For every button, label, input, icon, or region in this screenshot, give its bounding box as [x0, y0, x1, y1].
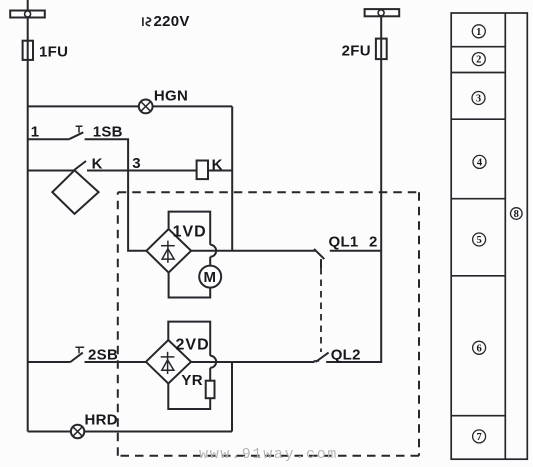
svg-text:HGN: HGN [154, 88, 188, 105]
svg-text:1: 1 [31, 124, 40, 141]
svg-text:QL1: QL1 [329, 233, 359, 250]
svg-text:2: 2 [369, 233, 378, 250]
svg-text:3: 3 [132, 155, 141, 172]
svg-text:QL2: QL2 [331, 347, 361, 364]
svg-text:K: K [212, 157, 223, 174]
svg-text:2FU: 2FU [342, 42, 371, 59]
svg-text:220V: 220V [154, 13, 190, 30]
svg-text:HRD: HRD [85, 412, 118, 429]
svg-text:2SB: 2SB [88, 347, 118, 364]
svg-text:1: 1 [476, 27, 481, 38]
svg-text:8: 8 [514, 209, 519, 220]
svg-text:5: 5 [476, 235, 481, 246]
svg-text:1SB: 1SB [93, 124, 123, 141]
svg-text:2VD: 2VD [176, 337, 210, 354]
svg-text:1FU: 1FU [39, 43, 68, 60]
svg-text:M: M [204, 269, 217, 286]
svg-text:6: 6 [476, 343, 481, 354]
svg-text:1VD: 1VD [173, 223, 207, 240]
svg-text:K: K [92, 155, 103, 172]
svg-text:www.91way.com: www.91way.com [199, 446, 338, 463]
svg-text:7: 7 [476, 432, 481, 443]
svg-text:YR: YR [181, 372, 202, 389]
svg-text:4: 4 [477, 157, 483, 168]
svg-text:2: 2 [476, 55, 481, 66]
svg-text:3: 3 [476, 94, 481, 105]
